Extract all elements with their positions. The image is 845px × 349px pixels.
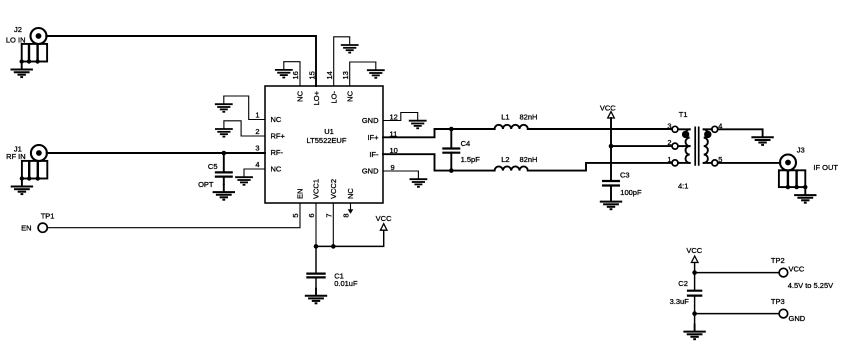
inductor L2 bbox=[495, 166, 528, 170]
capacitor C4 bbox=[442, 129, 460, 171]
pin 8 NC stub with arrow bbox=[348, 203, 354, 214]
label TP2 VCC 4.5V to 5.25V bbox=[771, 256, 833, 290]
wire VCC to T1 center tap and C3 bbox=[610, 118, 612, 181]
label T1 4:1 bbox=[678, 110, 688, 190]
label C1 0.01uF bbox=[334, 271, 358, 288]
inductor L1 bbox=[495, 125, 528, 129]
svg-text:LO-: LO- bbox=[329, 91, 338, 104]
label C5 OPT bbox=[198, 162, 217, 189]
label C3 100pF bbox=[620, 171, 642, 198]
svg-text:1.5pF: 1.5pF bbox=[461, 155, 481, 164]
node TP2 junction bbox=[692, 270, 697, 275]
ground (J3 shield) bbox=[794, 187, 816, 203]
wire pin 9 (GND) to ground bbox=[383, 170, 418, 172]
svg-text:IF OUT: IF OUT bbox=[813, 163, 838, 172]
label C2 3.3uF bbox=[670, 279, 690, 306]
pin numbers right 12 11 10 9 bbox=[390, 113, 398, 173]
ground (pin 13) bbox=[367, 62, 385, 78]
svg-text:U1: U1 bbox=[324, 127, 334, 136]
wire pin 12 (GND) to ground bbox=[383, 113, 418, 121]
pin labels left (NC RF+ RF- NC) bbox=[271, 115, 286, 174]
svg-text:1: 1 bbox=[667, 155, 671, 164]
svg-text:NC: NC bbox=[271, 165, 282, 174]
ground (C5) bbox=[213, 184, 235, 200]
test point TP2 bbox=[779, 268, 788, 277]
svg-text:3.3uF: 3.3uF bbox=[670, 297, 690, 306]
ground (T1 pin 4) bbox=[751, 129, 773, 145]
svg-text:7: 7 bbox=[325, 214, 334, 218]
label TP1 EN bbox=[21, 211, 54, 232]
svg-text:C5: C5 bbox=[208, 162, 218, 171]
svg-text:J3: J3 bbox=[797, 145, 805, 154]
svg-text:4:1: 4:1 bbox=[678, 181, 688, 190]
svg-text:LO IN: LO IN bbox=[6, 35, 26, 44]
wire center tap to T1 pin 2 bbox=[611, 145, 672, 147]
svg-text:3: 3 bbox=[667, 121, 671, 130]
wire pin 4 to ground bbox=[244, 168, 265, 170]
wire RF: J1 to pin 3 bbox=[47, 152, 265, 154]
svg-text:8: 8 bbox=[342, 214, 351, 218]
wire T1 pin 5 to J3 bbox=[718, 162, 780, 164]
ground (pin 4) bbox=[235, 169, 253, 185]
svg-text:L2: L2 bbox=[501, 155, 509, 164]
svg-text:4: 4 bbox=[255, 160, 259, 169]
power VCC (test point column) bbox=[686, 246, 702, 262]
wire pin 14 (LO-) to ground bbox=[334, 37, 350, 86]
svg-text:4.5V to 5.25V: 4.5V to 5.25V bbox=[788, 281, 833, 290]
svg-text:IF-: IF- bbox=[369, 150, 379, 159]
wire IF+ : pin 11 to C4 and L1 bbox=[383, 129, 495, 137]
svg-text:6: 6 bbox=[307, 214, 316, 218]
svg-text:2: 2 bbox=[255, 127, 259, 136]
ground (J1 shield) bbox=[11, 179, 33, 195]
power VCC (supply to VCC1/VCC2) bbox=[376, 214, 392, 230]
wire L2 to T1 pin 1 bbox=[528, 163, 672, 171]
svg-text:LO+: LO+ bbox=[312, 90, 321, 105]
pin numbers T1 bbox=[667, 121, 722, 164]
svg-text:TP2: TP2 bbox=[771, 256, 785, 265]
wire IF- : pin 10 to C4 and L2 bbox=[383, 154, 495, 170]
ground (C2 / VCC column) bbox=[683, 324, 705, 340]
wire VCC rail to pins 6,7 bbox=[316, 230, 384, 246]
svg-text:VCC2: VCC2 bbox=[329, 179, 338, 199]
pin numbers bottom 5 6 7 8 bbox=[291, 214, 351, 218]
svg-text:EN: EN bbox=[296, 189, 305, 199]
capacitor C5 bbox=[215, 153, 233, 184]
svg-text:VCC1: VCC1 bbox=[312, 179, 321, 199]
svg-text:NC: NC bbox=[271, 115, 282, 124]
node VCC1 junction bbox=[314, 244, 319, 249]
svg-text:IF+: IF+ bbox=[367, 133, 379, 142]
svg-text:J2: J2 bbox=[14, 25, 22, 34]
svg-text:100pF: 100pF bbox=[620, 188, 642, 197]
connector J2 (SMA, LO input) bbox=[20, 28, 48, 64]
ground (pin 16) bbox=[275, 62, 293, 78]
label L2 82nH bbox=[501, 155, 537, 164]
svg-text:TP1: TP1 bbox=[41, 211, 55, 220]
svg-text:13: 13 bbox=[341, 71, 350, 79]
wire to TP2 bbox=[695, 272, 780, 274]
svg-text:GND: GND bbox=[362, 116, 379, 125]
svg-text:3: 3 bbox=[255, 144, 259, 153]
node C4 top junction bbox=[449, 127, 454, 132]
ground (pin 9) bbox=[410, 171, 428, 187]
svg-text:C3: C3 bbox=[620, 171, 630, 180]
test point TP3 bbox=[779, 309, 788, 318]
wire EN: TP1 to pin 5 bbox=[48, 203, 300, 228]
pin labels bottom (EN VCC1 VCC2 NC) bbox=[296, 179, 356, 199]
power VCC (IF bias) bbox=[600, 103, 616, 118]
svg-text:1: 1 bbox=[255, 111, 259, 120]
test point TP1 bbox=[38, 223, 47, 232]
svg-text:L1: L1 bbox=[501, 112, 509, 121]
label L1 82nH bbox=[501, 112, 537, 121]
label J2 LO IN bbox=[6, 25, 26, 44]
svg-text:RF IN: RF IN bbox=[6, 152, 26, 161]
ground (C3) bbox=[600, 194, 622, 210]
connector J3 (SMA, IF output) bbox=[779, 155, 808, 190]
node C4 bottom junction bbox=[449, 168, 454, 173]
svg-text:VCC: VCC bbox=[376, 214, 392, 223]
svg-text:LT5522EUF: LT5522EUF bbox=[307, 136, 347, 145]
svg-text:NC: NC bbox=[296, 90, 305, 101]
ground (C1) bbox=[305, 288, 327, 304]
capacitor C3 bbox=[602, 181, 620, 194]
wire pin 16 to ground bbox=[284, 62, 300, 86]
svg-text:NC: NC bbox=[345, 90, 354, 101]
svg-text:VCC: VCC bbox=[600, 103, 616, 112]
label TP3 GND bbox=[771, 297, 806, 323]
svg-text:16: 16 bbox=[291, 71, 300, 79]
svg-text:C2: C2 bbox=[678, 279, 688, 288]
node RF (junction at C5) bbox=[222, 151, 227, 156]
ground (pin 1) bbox=[215, 96, 233, 112]
svg-text:GND: GND bbox=[789, 314, 806, 323]
svg-text:14: 14 bbox=[325, 71, 334, 79]
pin labels top (NC LO+ LO- NC) bbox=[296, 90, 355, 105]
svg-text:VCC: VCC bbox=[789, 265, 805, 274]
svg-text:2: 2 bbox=[667, 138, 671, 147]
wire L1 to T1 pin 3 bbox=[528, 128, 672, 130]
node VCC2 junction bbox=[331, 244, 336, 249]
label J3 IF OUT bbox=[797, 145, 839, 172]
IC U1 LT5522EUF bbox=[265, 86, 383, 203]
pin labels right (GND IF+ IF- GND) bbox=[362, 116, 379, 176]
wire pin 13 to ground bbox=[350, 62, 376, 86]
capacitor C1 bbox=[306, 246, 325, 287]
connector J1 (SMA, RF input) bbox=[20, 145, 48, 181]
svg-text:TP3: TP3 bbox=[771, 297, 785, 306]
label J1 RF IN bbox=[6, 145, 26, 161]
wire T1 pin 4 to ground bbox=[718, 128, 763, 130]
svg-text:OPT: OPT bbox=[198, 180, 214, 189]
svg-text:82nH: 82nH bbox=[520, 112, 538, 121]
wire to TP3 bbox=[695, 313, 780, 315]
wire pin 1 to ground bbox=[224, 96, 265, 120]
pin numbers top 16 15 14 13 bbox=[291, 71, 350, 79]
ground (pin 14) bbox=[341, 37, 359, 53]
label C4 1.5pF bbox=[461, 139, 481, 164]
wire LO: J2 to pin 15 bbox=[46, 36, 316, 86]
svg-text:5: 5 bbox=[291, 214, 300, 218]
svg-text:RF+: RF+ bbox=[271, 132, 286, 141]
svg-text:GND: GND bbox=[362, 167, 379, 176]
transformer T1 bbox=[672, 126, 718, 166]
label U1 LT5522EUF bbox=[307, 127, 347, 145]
svg-text:15: 15 bbox=[307, 71, 316, 79]
svg-text:82nH: 82nH bbox=[520, 155, 538, 164]
svg-text:NC: NC bbox=[346, 188, 355, 199]
svg-text:RF-: RF- bbox=[271, 148, 284, 157]
node VCC / center tap junction bbox=[609, 144, 614, 149]
wire VCC column down to ground bbox=[694, 263, 696, 324]
ground (pin 12) bbox=[409, 113, 427, 129]
svg-text:T1: T1 bbox=[679, 110, 688, 119]
ground (pin 2) bbox=[215, 121, 233, 137]
node TP3 junction bbox=[692, 311, 697, 316]
svg-text:C4: C4 bbox=[461, 139, 471, 148]
svg-text:EN: EN bbox=[21, 224, 31, 233]
svg-text:0.01uF: 0.01uF bbox=[334, 279, 358, 288]
wire pin 2 (RF+) to ground bbox=[224, 121, 265, 136]
ground (J2 shield) bbox=[11, 62, 33, 78]
svg-text:VCC: VCC bbox=[686, 246, 702, 255]
wire pin 6 (VCC1) bbox=[315, 203, 317, 246]
wire pin 7 VCC2 down bbox=[332, 203, 334, 246]
capacitor C2 bbox=[687, 291, 702, 296]
pin numbers left 1-4 bbox=[255, 111, 259, 170]
